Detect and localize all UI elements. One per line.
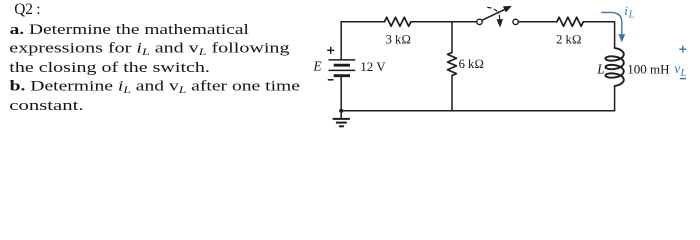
wire top-left horizontal: [341, 21, 384, 23]
inductor minus sign (blue): [680, 78, 686, 80]
svg-text:a. Determine the mathematical: a. Determine the mathematical: [10, 21, 250, 37]
wire battery bottom lead: [340, 76, 342, 111]
problem text line 6: [9, 97, 83, 113]
wire bottom horizontal: [341, 110, 614, 112]
svg-text:L: L: [596, 61, 604, 76]
problem text line 3: [9, 40, 290, 57]
switch closing dashed arc: [487, 7, 499, 13]
junction dot bottom-left node: [339, 109, 343, 113]
svg-text:the closing of the switch.: the closing of the switch.: [9, 60, 210, 76]
wire top-right corner to inductor: [583, 22, 614, 48]
problem text line 4: [9, 60, 210, 76]
svg-text:L: L: [628, 10, 635, 21]
problem text line 5: [10, 78, 300, 96]
label vL (blue): [674, 61, 686, 79]
svg-text:v: v: [674, 61, 680, 76]
svg-text:6 kΩ: 6 kΩ: [459, 57, 484, 71]
battery plus sign: [327, 47, 334, 54]
problem text line 2: [10, 21, 250, 37]
label 12 V: [360, 59, 386, 74]
label 100 mH: [627, 61, 669, 76]
label E: [313, 58, 322, 73]
wire left vertical battery top lead: [340, 22, 342, 60]
svg-text:12 V: 12 V: [360, 59, 386, 74]
wire inductor bottom lead: [614, 86, 616, 111]
svg-text:100 mH: 100 mH: [627, 61, 669, 76]
svg-text:L: L: [680, 68, 687, 79]
svg-text:i: i: [624, 3, 628, 18]
svg-text:constant.: constant.: [9, 97, 83, 113]
switch contact circle right: [513, 19, 518, 24]
svg-text:E: E: [313, 58, 322, 73]
wire 6k branch bottom lead: [451, 76, 453, 111]
wire top right of switch: [518, 21, 557, 23]
resistor R3 6 kOhm: [448, 53, 457, 76]
label 6 kOhm: [459, 57, 484, 71]
wire top middle: [411, 21, 477, 23]
label 2 kOhm: [556, 32, 581, 46]
svg-text:b. Determine iL and vL after o: b. Determine iL and vL after one time: [10, 78, 300, 96]
resistor R1 3 kOhm: [385, 17, 411, 26]
switch blade with arrowhead: [482, 6, 511, 20]
label 3 kOhm: [386, 32, 411, 46]
wire 6k branch top lead: [451, 22, 453, 53]
ground: [333, 111, 350, 127]
inductor plus sign (blue): [679, 46, 686, 53]
inductor L coil: [605, 48, 623, 86]
label L: [596, 61, 604, 76]
current arrow iL (blue): [601, 12, 624, 41]
svg-text:2 kΩ: 2 kΩ: [556, 32, 581, 46]
switch closing arrow: [497, 15, 502, 26]
problem text line 1: [14, 1, 40, 18]
svg-text:3 kΩ: 3 kΩ: [386, 32, 411, 46]
svg-text:Q2:: Q2:: [14, 1, 40, 18]
battery E plates: [329, 60, 356, 76]
switch contact circle left: [477, 19, 482, 24]
label iL (blue): [624, 3, 635, 21]
svg-text:expressions for iL and vL foll: expressions for iL and vL following: [9, 40, 290, 57]
resistor R2 2 kOhm: [557, 17, 583, 26]
battery minus sign: [328, 79, 334, 81]
